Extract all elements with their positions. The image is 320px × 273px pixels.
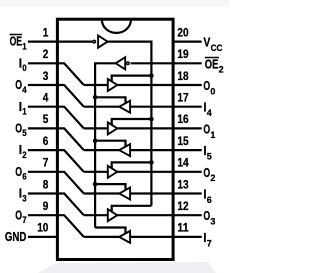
inverter U1 triangle [98, 36, 108, 48]
svg-text:O: O [203, 122, 210, 136]
svg-text:1: 1 [22, 106, 26, 117]
wire enable branch to buffer row 10 [95, 228, 125, 234]
wire pin 14 O2 output line from buffer tip [117, 171, 201, 173]
svg-text:10: 10 [37, 221, 48, 235]
svg-text:3: 3 [210, 216, 215, 227]
svg-text:5: 5 [22, 127, 26, 138]
inverter U2 triangle [116, 57, 126, 69]
wire enable branch to buffer row 8 [95, 184, 125, 190]
wire pin 11 I7 input line to buffer [130, 236, 202, 238]
svg-text:18: 18 [177, 69, 188, 83]
three-state buffer 4A (I3 to O3) right-pointing [108, 209, 118, 221]
svg-text:O: O [15, 78, 22, 92]
three-state buffer 3B (I6 to O6) left-pointing [119, 188, 130, 200]
wire enable branch to buffer row 3 [112, 76, 152, 82]
wire pin 16 O1 output line from buffer tip [117, 127, 201, 129]
wire pin 9 O7 stub and diagonal [28, 215, 84, 237]
pin-1 index notch [102, 20, 131, 33]
wire pin 3 O4 stub and diagonal [28, 85, 84, 107]
inverter U2 for OE2: input bubble [127, 62, 129, 65]
wire buffer output segment row 10 [84, 236, 119, 238]
IC body outline [57, 19, 173, 259]
svg-text:2: 2 [43, 47, 49, 61]
wire enable branch to buffer row 9 [112, 206, 152, 212]
svg-text:4: 4 [207, 107, 213, 118]
svg-text:O: O [203, 209, 210, 223]
wire buffer output segment row 8 [84, 192, 119, 194]
wire pin 12 O3 output line from buffer tip [117, 214, 201, 216]
svg-text:20: 20 [177, 25, 188, 39]
wire pin 15 I5 input line to buffer [130, 149, 202, 151]
wire buffer input segment row 7 [84, 171, 108, 173]
svg-text:4: 4 [43, 91, 49, 105]
node junction dot on OE1 rail at row 7 branch [149, 160, 154, 165]
svg-text:0: 0 [210, 85, 215, 96]
svg-text:19: 19 [177, 47, 188, 61]
wire enable branch to buffer row 6 [95, 141, 125, 147]
wire buffer input segment row 5 [84, 127, 108, 129]
svg-text:CC: CC [211, 42, 223, 53]
svg-text:2: 2 [22, 149, 26, 160]
node junction dot on OE2 rail at row 4 branch [93, 95, 98, 100]
wire buffer output segment row 6 [84, 149, 119, 151]
three-state buffer 1A (I0 to O0) right-pointing [108, 79, 118, 91]
svg-text:4: 4 [22, 84, 27, 95]
svg-text:17: 17 [177, 91, 188, 105]
svg-text:5: 5 [43, 112, 49, 126]
op-amp style inverter U1 for OE1: input bubble [93, 40, 96, 43]
svg-text:12: 12 [177, 199, 188, 213]
wire enable branch to buffer row 5 [112, 119, 152, 125]
node junction dot on OE2 rail at row 8 branch [93, 182, 98, 187]
wire pin 7 O6 stub and diagonal [28, 172, 84, 194]
svg-text:2: 2 [210, 172, 215, 183]
svg-text:15: 15 [177, 134, 188, 148]
wire pin 1 OE1 line into inverter U1 [28, 40, 93, 42]
node junction dot on OE2 rail at row 6 branch [93, 138, 98, 143]
svg-text:6: 6 [207, 194, 212, 205]
wire pin 6 I2 stub and diagonal [28, 150, 84, 172]
svg-text:GND: GND [5, 230, 27, 244]
svg-text:8: 8 [43, 177, 49, 191]
three-state buffer 3A (I2 to O2) right-pointing [108, 166, 118, 178]
svg-text:11: 11 [177, 221, 188, 235]
svg-text:O: O [15, 122, 22, 136]
svg-text:OE: OE [10, 35, 22, 49]
svg-text:O: O [203, 166, 210, 180]
wire OE1 inverter output to enable rail [108, 42, 152, 206]
wire buffer input segment row 9 [84, 214, 108, 216]
three-state buffer 2A (I1 to O1) right-pointing [108, 122, 118, 134]
svg-text:13: 13 [177, 177, 188, 191]
wire pin 13 I6 input line to buffer [130, 192, 202, 194]
svg-text:16: 16 [177, 112, 188, 126]
svg-text:OE: OE [205, 57, 219, 71]
svg-text:5: 5 [207, 151, 212, 162]
svg-text:O: O [15, 208, 22, 222]
wire enable branch to buffer row 7 [112, 162, 152, 168]
svg-text:14: 14 [177, 156, 188, 170]
three-state buffer 4B (I7 to O7) left-pointing [119, 231, 130, 243]
wire pin 8 I3 stub and diagonal [28, 194, 84, 216]
three-state buffer 2B (I5 to O5) left-pointing [119, 144, 130, 156]
wire pin 17 I4 input line to buffer [130, 106, 202, 108]
wire pin 2 I0 stub and diagonal [28, 63, 84, 85]
svg-text:0: 0 [22, 62, 26, 73]
svg-text:1: 1 [210, 129, 215, 140]
wire pin 5 O5 stub and diagonal [28, 128, 84, 150]
svg-text:1: 1 [22, 40, 26, 51]
node junction dot on OE1 rail at row 5 branch [149, 117, 154, 122]
svg-text:7: 7 [22, 214, 26, 225]
wire enable branch to buffer row 4 [95, 97, 125, 103]
node junction dot on OE1 rail at row 3 branch [149, 73, 154, 78]
svg-text:1: 1 [43, 25, 49, 39]
svg-text:6: 6 [43, 134, 49, 148]
svg-text:7: 7 [43, 156, 49, 170]
svg-text:6: 6 [22, 171, 26, 182]
wire buffer output segment row 4 [84, 106, 119, 108]
svg-text:O: O [203, 79, 210, 93]
wire buffer input segment row 3 [84, 84, 108, 86]
wire OE2 inverter output to enable rail [95, 63, 116, 227]
svg-text:9: 9 [43, 199, 49, 213]
svg-text:3: 3 [22, 192, 26, 203]
wire pin 20 VCC stub [172, 40, 202, 42]
wire pin 4 I1 stub and diagonal [28, 107, 84, 129]
svg-text:7: 7 [207, 237, 212, 248]
wire pin 19 OE2 line into inverter U2 [131, 62, 202, 64]
wire pin 18 O0 output line from buffer tip [117, 84, 201, 86]
three-state buffer 1B (I4 to O4) left-pointing [119, 101, 130, 113]
svg-text:3: 3 [43, 69, 49, 83]
wire pin 10 GND stub [28, 236, 59, 238]
svg-text:O: O [15, 165, 22, 179]
svg-text:2: 2 [219, 64, 224, 75]
